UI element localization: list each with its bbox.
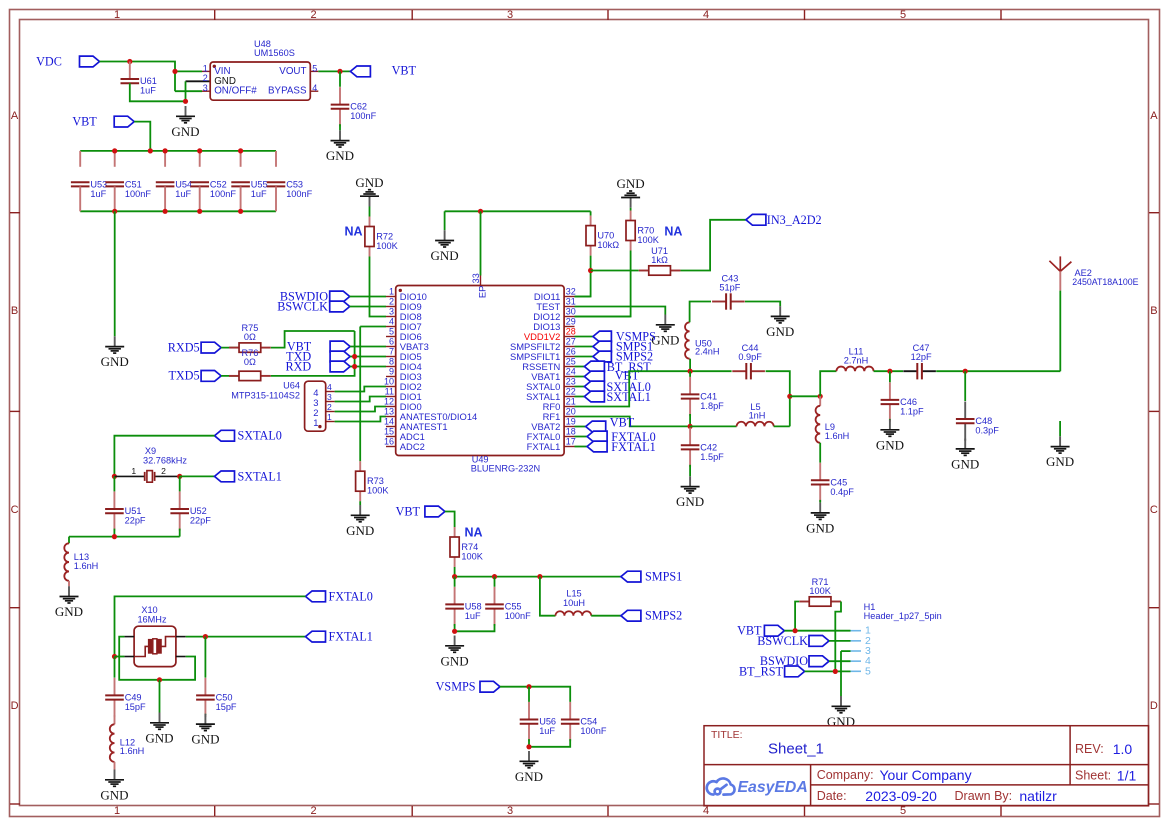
svg-text:C42: C42 [700, 442, 717, 452]
svg-text:16MHz: 16MHz [137, 614, 167, 624]
svg-text:NA: NA [664, 225, 682, 239]
svg-text:100nF: 100nF [286, 189, 312, 199]
capacitor C42 1.5pF [681, 428, 700, 467]
wire X9 to U51 [113, 476, 115, 491]
svg-text:1: 1 [389, 287, 394, 297]
wire rail to C44 [690, 370, 732, 372]
svg-text:1kΩ: 1kΩ [651, 255, 668, 265]
svg-text:12: 12 [384, 397, 394, 407]
svg-text:32: 32 [566, 287, 576, 297]
wire C42 to ground [689, 465, 691, 477]
wire X9 to U52 [179, 476, 181, 491]
svg-text:NA: NA [464, 526, 482, 540]
op-amp U48 regulator UM1560S box [210, 62, 310, 100]
wire X9 to SXTAL1 flag [180, 475, 215, 477]
svg-text:C53: C53 [286, 179, 303, 189]
svg-text:VBT: VBT [392, 64, 417, 78]
svg-text:SXTAL0: SXTAL0 [238, 429, 282, 443]
svg-text:GND: GND [951, 457, 979, 472]
svg-text:100K: 100K [461, 552, 483, 562]
capacitor U53 1uF [71, 182, 90, 186]
ground below R73 [351, 505, 370, 522]
svg-text:GND: GND [145, 730, 173, 745]
wire C46 top [889, 371, 891, 382]
resistor R75 0Ω [229, 343, 271, 352]
svg-text:2: 2 [327, 402, 332, 412]
svg-text:6: 6 [389, 337, 394, 347]
svg-text:1: 1 [114, 805, 120, 817]
svg-text:D: D [1150, 700, 1158, 712]
U49 left pin stubs [386, 276, 575, 447]
wire stub of floating ground [1059, 421, 1061, 436]
svg-text:100nF: 100nF [210, 189, 236, 199]
junction U58/C55 ground [452, 629, 457, 634]
junction bus/RXD [352, 364, 357, 369]
resistor U71 1kΩ [639, 266, 681, 275]
X10 pin stubs [124, 637, 185, 657]
svg-text:ADC2: ADC2 [400, 441, 425, 452]
net flag SXTAL0 shape [584, 381, 604, 392]
wire C50 bottom [204, 714, 206, 715]
wire U64-3 to DIO1 pin 11 [335, 397, 386, 402]
junction rail/C48 [963, 369, 968, 374]
svg-text:30: 30 [566, 307, 576, 317]
capacitor C46 1.1pF [881, 382, 900, 421]
svg-text:1.6nH: 1.6nH [74, 561, 99, 571]
svg-text:14: 14 [384, 417, 394, 427]
svg-text:UM1560S: UM1560S [254, 48, 295, 58]
net flag FXTAL0 shape [587, 431, 607, 442]
net flag IN3_A2D2 shape [746, 214, 766, 225]
svg-text:C62: C62 [350, 102, 367, 112]
svg-text:FXTAL1: FXTAL1 [611, 440, 655, 454]
net flag BSWDIO shape [809, 656, 829, 667]
wire to L13 [68, 537, 70, 544]
capacitor C53 100nF [267, 182, 286, 186]
wire R71 left to VBT row [795, 602, 799, 631]
capacitor C52 bottom lead [199, 186, 201, 211]
wire rail to L15 [540, 577, 556, 616]
svg-text:GND: GND [355, 175, 383, 190]
net flag RXD5 shape [201, 342, 221, 353]
antenna AE2 2450AT18A100E [1049, 256, 1071, 290]
wire EP rail to ground [444, 211, 446, 230]
svg-text:1: 1 [327, 412, 332, 422]
svg-text:C52: C52 [210, 179, 227, 189]
svg-text:1uF: 1uF [175, 189, 191, 199]
junction U56 [526, 684, 531, 689]
svg-text:100K: 100K [809, 586, 831, 596]
net flag VBT shape [425, 506, 445, 517]
svg-text:R72: R72 [376, 232, 393, 242]
svg-text:0Ω: 0Ω [244, 332, 256, 342]
capacitor C51 bottom lead [114, 186, 116, 211]
svg-text:15: 15 [384, 427, 394, 437]
wire U50 bottom [689, 359, 691, 372]
svg-text:1uF: 1uF [90, 189, 106, 199]
svg-text:13: 13 [384, 407, 394, 417]
net flag SXTAL1 shape [215, 471, 235, 482]
capacitor U55 bottom lead [240, 186, 242, 211]
svg-text:1: 1 [313, 417, 318, 428]
junction rail/C46 [887, 369, 892, 374]
svg-text:GND: GND [1046, 454, 1074, 469]
connector H1 Header_1p27_5pin pins [851, 631, 862, 672]
net flag VBT shape [350, 66, 370, 77]
svg-text:10: 10 [384, 377, 394, 387]
wire L15 to SMPS2 [591, 615, 621, 617]
capacitor C51 100nF [105, 182, 124, 186]
svg-text:BSWCLK: BSWCLK [757, 634, 808, 648]
SMPS1 rail [455, 576, 621, 578]
junction top rail [112, 148, 117, 153]
U48 pin-1 marker [213, 65, 216, 68]
svg-text:GND: GND [326, 148, 354, 163]
svg-text:22pF: 22pF [125, 516, 146, 526]
wire U51 bottom [113, 529, 115, 537]
svg-text:VDC: VDC [36, 55, 62, 69]
svg-text:U52: U52 [190, 506, 207, 516]
capacitor C47 12pF [903, 363, 936, 379]
svg-text:U54: U54 [175, 179, 192, 189]
row tick marks [10, 213, 1159, 804]
wire pin27 to SMPS1 flag [575, 346, 594, 348]
svg-text:C51: C51 [125, 179, 142, 189]
wire C44 right down to L5 rail [766, 371, 790, 426]
svg-text:12pF: 12pF [911, 352, 932, 362]
svg-text:1uF: 1uF [251, 189, 267, 199]
ground header [832, 696, 851, 713]
svg-text:0.9pF: 0.9pF [738, 352, 762, 362]
ground (inverted) [360, 190, 379, 207]
capacitor C48 0.3pF [956, 402, 975, 441]
svg-text:5: 5 [312, 63, 317, 73]
wire VDC to U48 VIN/ON-OFF [100, 62, 176, 92]
wire R75 to bus [271, 331, 355, 348]
capacitor U51 22pF [105, 492, 124, 531]
svg-text:FXTAL0: FXTAL0 [329, 589, 373, 603]
capacitor C53 bottom lead [275, 186, 277, 211]
svg-text:1.0: 1.0 [1113, 741, 1133, 757]
svg-text:7: 7 [389, 347, 394, 357]
capacitor C43 51pF [712, 293, 745, 309]
ground below C62 [331, 130, 350, 147]
svg-text:B: B [1150, 305, 1157, 317]
junction bottom rail [197, 209, 202, 214]
wire U56 bottom [528, 739, 530, 747]
svg-text:BSWCLK: BSWCLK [277, 300, 328, 314]
wire TEST pin31 to ground [575, 307, 666, 315]
svg-text:32.768kHz: 32.768kHz [143, 455, 187, 465]
svg-text:31: 31 [566, 297, 576, 307]
svg-text:16: 16 [384, 437, 394, 447]
svg-text:VBT: VBT [610, 416, 635, 430]
wire R76 to bus vertical [271, 331, 355, 376]
svg-text:U51: U51 [125, 506, 142, 516]
svg-text:GND: GND [100, 787, 128, 802]
junction VIN branch [172, 69, 177, 74]
wire U70 to DIO11 pin 32 [575, 256, 591, 297]
svg-text:0.3pF: 0.3pF [975, 426, 999, 436]
ground floating [1051, 436, 1070, 453]
svg-text:BT_RST: BT_RST [739, 664, 784, 678]
junction top rail [163, 148, 168, 153]
wire pin23 to SXTAL0 flag [575, 386, 585, 388]
wire C46 bottom [889, 418, 891, 421]
ground below C50 [196, 714, 215, 731]
capacitor U52 22pF [170, 492, 189, 531]
wire BSWCLK to pin 2 [350, 306, 386, 308]
inductor U50 2.4nH [685, 322, 690, 358]
crystal X9 32.768kHz [114, 471, 179, 483]
L12 bottom lead [114, 762, 116, 770]
capacitor U61 1uF [121, 79, 140, 83]
wire to X10 crystal pin [115, 656, 125, 658]
net flag VDC shape [80, 56, 100, 67]
wire C42 top stub [689, 425, 691, 428]
wire L11 to C47 [874, 370, 903, 372]
net flag FXTAL1 shape [306, 631, 326, 642]
U48 pin stubs [202, 71, 318, 91]
wire X10 case loop [119, 637, 195, 680]
wire R70 to DIO12 pin 30 [575, 251, 631, 317]
svg-text:GND: GND [431, 248, 459, 263]
svg-text:BLUENRG-232N: BLUENRG-232N [471, 463, 540, 473]
svg-text:GND: GND [515, 769, 543, 784]
svg-text:U61: U61 [140, 76, 157, 86]
svg-text:natilzr: natilzr [1019, 788, 1057, 804]
svg-text:GND: GND [441, 653, 469, 668]
junction bottom rail [238, 209, 243, 214]
svg-text:19: 19 [566, 417, 576, 427]
wire VSMPS to C54 [500, 687, 570, 702]
ground below C45 [811, 503, 830, 520]
svg-text:2: 2 [310, 9, 316, 21]
svg-text:Your Company: Your Company [880, 767, 972, 783]
wire jog across [790, 395, 820, 397]
wire VBT to VBAT3 pin 6 [350, 346, 386, 348]
wire VOUT to VBT flag [318, 70, 350, 72]
junction top rail [197, 148, 202, 153]
wire DIO7 pin 4 [360, 326, 386, 328]
svg-text:Header_1p27_5pin: Header_1p27_5pin [864, 611, 942, 621]
svg-text:3: 3 [507, 9, 513, 21]
wire U61 bottom to GND rail [130, 83, 186, 101]
wire header pin 1 [784, 630, 850, 632]
capacitor C50 15pF [196, 678, 215, 717]
resistor R76 0Ω [229, 371, 271, 380]
ground below C42 [681, 476, 700, 493]
svg-text:C55: C55 [505, 602, 522, 612]
wire cap bank to ground [114, 211, 116, 336]
net flag BSWCLK shape [330, 301, 350, 312]
wire R72 to DIO8 [370, 257, 387, 317]
junction VOUT/C62 [337, 69, 342, 74]
svg-text:0Ω: 0Ω [244, 357, 256, 367]
svg-text:26: 26 [566, 347, 576, 357]
svg-text:C45: C45 [830, 477, 847, 487]
svg-text:EP: EP [476, 286, 487, 299]
capacitor U53 bottom lead [79, 186, 81, 211]
wire rail to U70 [590, 211, 592, 215]
junction EP [478, 209, 483, 214]
net flag SMPS1 shape [621, 571, 641, 582]
wire pin22 to SXTAL1 flag [575, 396, 585, 398]
junction BT_RST/R71 [833, 669, 838, 674]
wire C48 top [964, 371, 966, 401]
svg-text:4: 4 [703, 805, 709, 817]
cap bank top rail [80, 150, 276, 152]
svg-text:R70: R70 [637, 226, 654, 236]
svg-text:4: 4 [389, 317, 394, 327]
svg-text:1uF: 1uF [465, 611, 481, 621]
svg-text:C48: C48 [975, 416, 992, 426]
svg-text:1: 1 [114, 9, 120, 21]
svg-text:24: 24 [566, 367, 576, 377]
svg-text:R74: R74 [461, 542, 478, 552]
junction R71/VBT [793, 628, 798, 633]
junction bottom rail [112, 534, 117, 539]
svg-text:100K: 100K [367, 486, 389, 496]
svg-text:B: B [11, 305, 18, 317]
svg-text:FXTAL1: FXTAL1 [527, 441, 561, 452]
resistor R71 100K [799, 597, 841, 606]
wire BSWDIO to pin 1 [350, 296, 386, 298]
wire R74 to rail [454, 567, 456, 577]
wire loop to ground [159, 680, 161, 713]
wire L5 to riser [774, 425, 790, 427]
junction bottom rail [163, 209, 168, 214]
junction X9 pin1 [112, 474, 117, 479]
junction R74/U58 [452, 574, 457, 579]
ground below EP rail [435, 230, 454, 247]
capacitor C62 100nF [331, 87, 350, 126]
svg-text:2023-09-20: 2023-09-20 [865, 788, 937, 804]
capacitor U55 1uF [231, 182, 250, 186]
resistor R72 100K [365, 217, 374, 257]
wire VBT to cap bank rail [134, 122, 150, 151]
svg-text:100nF: 100nF [125, 189, 151, 199]
capacitor U58 1uF [445, 587, 464, 626]
cap bank bottom rail [80, 210, 276, 212]
svg-text:Drawn By:: Drawn By: [955, 789, 1013, 803]
wire FXTAL0 down [115, 596, 306, 656]
net flag SXTAL1 shape [584, 391, 604, 402]
wire pin18 to FXTAL0 flag [575, 436, 588, 438]
svg-text:RXD: RXD [285, 360, 311, 374]
EasyEDA logo [707, 778, 735, 794]
svg-text:33: 33 [471, 273, 481, 283]
net flag VBT shape [330, 341, 350, 352]
wire R71 right to BT_RST row [835, 602, 841, 672]
svg-text:2: 2 [161, 466, 166, 476]
net flag FXTAL1 shape [587, 441, 607, 452]
svg-text:3: 3 [507, 805, 513, 817]
svg-text:10kΩ: 10kΩ [597, 240, 619, 250]
inductor L5 1nH [737, 422, 774, 427]
junction top rail [238, 148, 243, 153]
net flag BT_RST shape [584, 361, 604, 372]
svg-text:1: 1 [131, 466, 136, 476]
crystal bottom rail [69, 536, 180, 538]
svg-text:GND: GND [55, 604, 83, 619]
inductor L11 2.7nH [836, 367, 873, 372]
wire TXD5 to R76 [221, 375, 239, 377]
svg-text:25: 25 [566, 357, 576, 367]
net flag VSMPS shape [480, 681, 500, 692]
svg-text:28: 28 [566, 327, 576, 337]
svg-text:RXD5: RXD5 [168, 341, 200, 355]
wire to U48 pin 3 [175, 90, 202, 92]
wire up to L11 [820, 371, 836, 396]
wire C62 top [339, 71, 341, 86]
svg-text:REV:: REV: [1075, 742, 1104, 756]
svg-text:U64: U64 [283, 381, 300, 391]
wire pin28 to VSMPS flag [575, 336, 594, 338]
svg-text:GND: GND [766, 324, 794, 339]
capacitor U54 1uF [156, 182, 175, 186]
wire RF1 to matching rail [575, 417, 691, 427]
svg-text:BYPASS: BYPASS [268, 86, 307, 97]
capacitor C54 100nF [561, 702, 580, 741]
wire pin24 to VBT flag [575, 376, 585, 378]
svg-text:IN3_A2D2: IN3_A2D2 [767, 213, 822, 227]
svg-text:20: 20 [566, 407, 576, 417]
svg-text:SXTAL1: SXTAL1 [238, 469, 282, 483]
net flag SMPS2 shape [593, 351, 611, 362]
svg-text:U56: U56 [539, 717, 556, 727]
wire U56 top [528, 687, 530, 702]
junction C55 [492, 574, 497, 579]
svg-text:5: 5 [865, 665, 871, 677]
resistor R70 100K [626, 211, 635, 251]
capacitor C41 1.8pF [681, 377, 700, 416]
wire TXD to DIO5 pin 7 [350, 356, 386, 358]
svg-text:100nF: 100nF [580, 726, 606, 736]
wire rail to L5 [690, 425, 737, 427]
svg-text:100K: 100K [637, 235, 659, 245]
svg-text:17: 17 [566, 437, 576, 447]
junction C41/C42/L5 [688, 424, 693, 429]
svg-text:C: C [11, 504, 19, 516]
net flag VBT shape [114, 116, 134, 127]
ground below U58 [445, 636, 464, 653]
ground for TEST [656, 315, 675, 332]
wire C54 bottom to junction [529, 739, 570, 747]
svg-text:3: 3 [203, 83, 208, 93]
capacitor C44 0.9pF [732, 363, 765, 379]
ground (inverted) [621, 191, 640, 208]
crystal X10 16MHz package box [134, 626, 176, 666]
svg-text:5: 5 [900, 805, 906, 817]
resistor U70 10kΩ [586, 216, 595, 256]
wire C41 top [689, 371, 691, 377]
wire U64-2 to DIO0 pin 12 [335, 407, 386, 412]
svg-text:2: 2 [203, 73, 208, 83]
wire VBT to R74 [445, 512, 455, 528]
svg-text:C: C [1150, 504, 1158, 516]
U49 pin-1 marker [399, 289, 402, 292]
wire pin30 (drawn above) [575, 316, 631, 318]
svg-text:GND: GND [827, 714, 855, 729]
wire header pin 2 [829, 640, 851, 642]
net flag BSWDIO shape [330, 291, 350, 302]
net flag VBT shape [586, 421, 606, 432]
junction X10/C50 [203, 634, 208, 639]
svg-text:4: 4 [703, 9, 709, 21]
capacitor U55 top lead [240, 151, 242, 167]
svg-text:ON/OFF#: ON/OFF# [214, 86, 257, 97]
